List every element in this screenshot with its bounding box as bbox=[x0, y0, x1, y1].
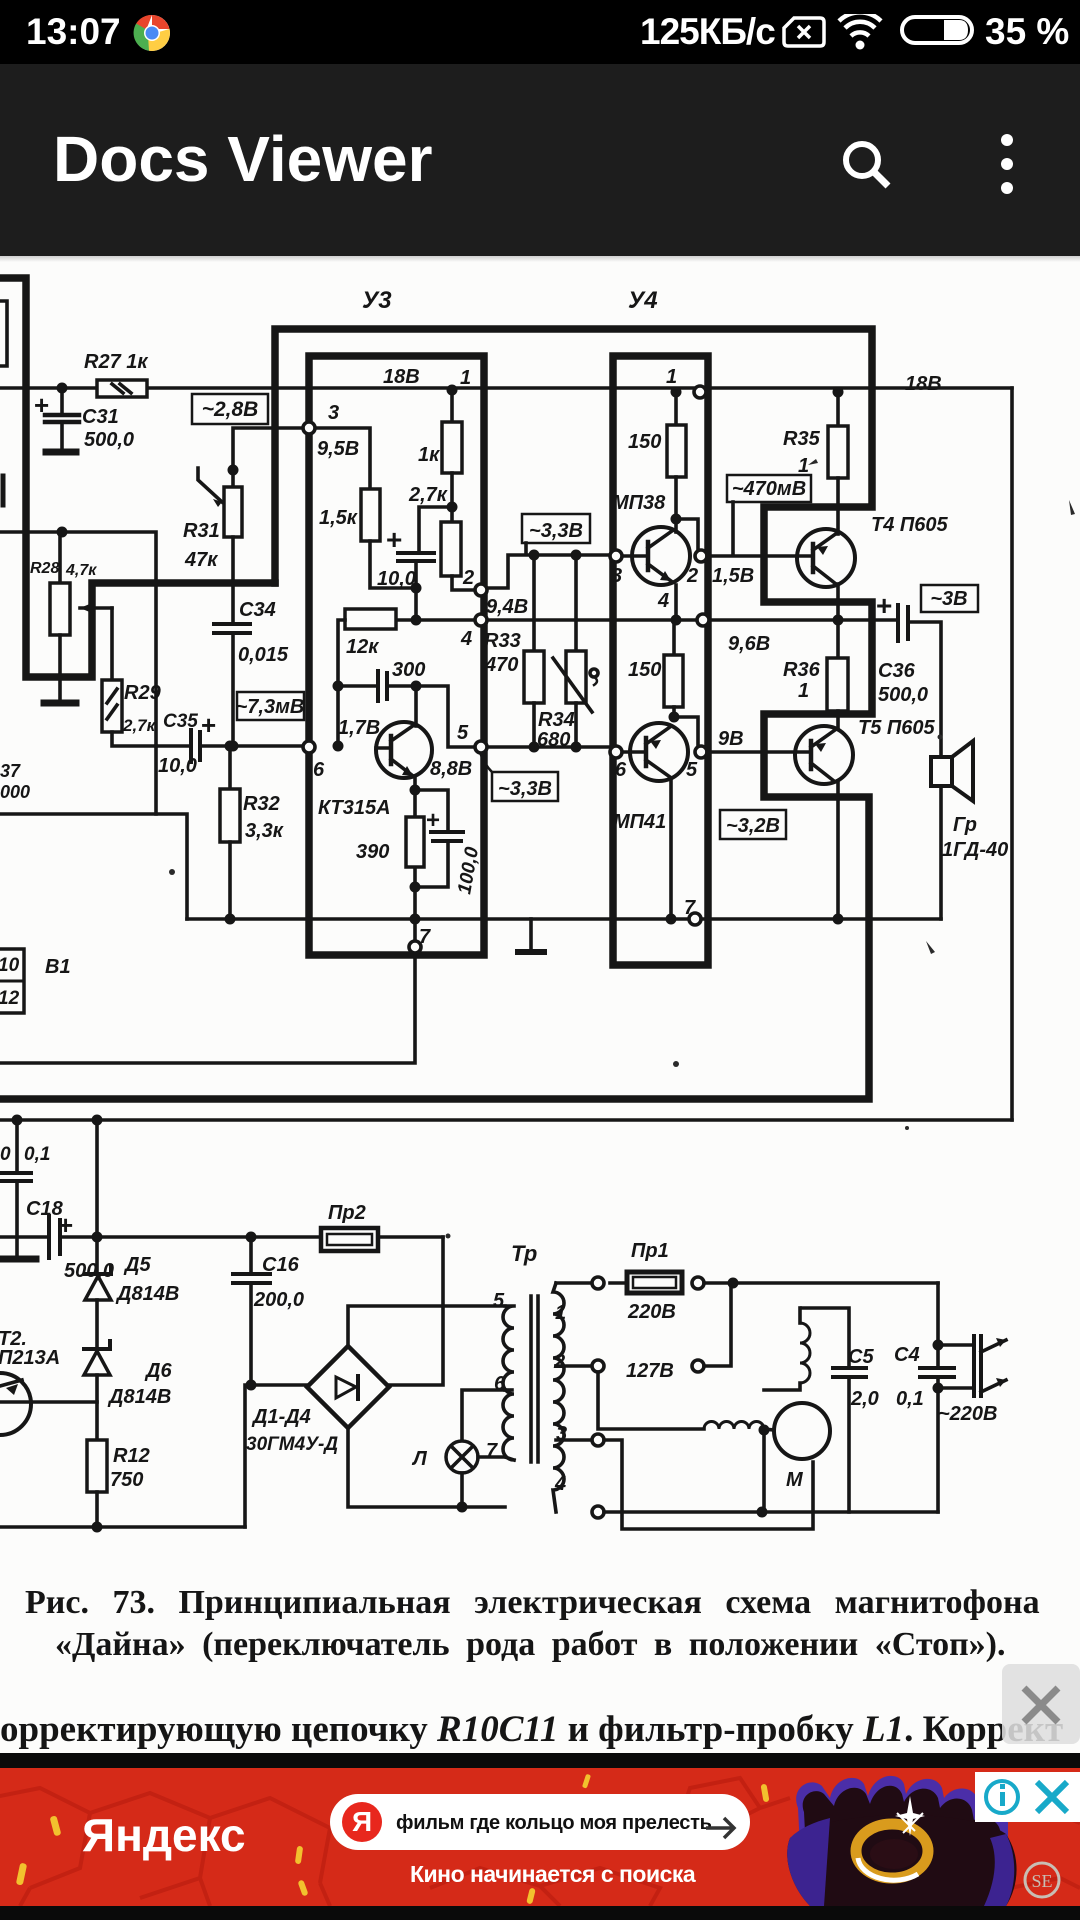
capacitor C5 2,0 bbox=[833, 1368, 866, 1512]
svg-text:200,0: 200,0 bbox=[253, 1289, 304, 1311]
svg-text:R12: R12 bbox=[113, 1445, 150, 1467]
zener D6 bbox=[84, 1341, 110, 1440]
svg-text:+: + bbox=[34, 390, 49, 420]
motor M bbox=[774, 1403, 830, 1459]
junction 338,746 bbox=[333, 741, 344, 752]
svg-text:2,7к: 2,7к bbox=[122, 716, 157, 735]
svg-text:+: + bbox=[876, 590, 892, 621]
svg-text:3,3к: 3,3к bbox=[245, 820, 284, 842]
svg-text:7: 7 bbox=[684, 897, 696, 919]
transformer secondary winding bbox=[503, 1306, 514, 1460]
junction 251,1385 bbox=[246, 1380, 257, 1391]
junction 462,1507 bbox=[457, 1502, 468, 1513]
capacitor C31 bbox=[45, 388, 79, 452]
wire input tap bbox=[0, 532, 156, 814]
svg-text:5: 5 bbox=[686, 759, 698, 781]
svg-text:2,7к: 2,7к bbox=[408, 484, 448, 506]
svg-text:~2,8В: ~2,8В bbox=[202, 398, 259, 421]
junction 62,388 bbox=[57, 383, 68, 394]
wire left stub to switch bbox=[0, 814, 187, 919]
wifi icon bbox=[836, 14, 884, 50]
box U4 bbox=[613, 356, 708, 965]
fuse Pr1 220V bbox=[556, 1272, 938, 1293]
junction 230,919 bbox=[225, 914, 236, 925]
svg-text:~3,3В: ~3,3В bbox=[529, 520, 583, 542]
svg-text:~220В: ~220В bbox=[938, 1403, 998, 1425]
svg-text:С4: С4 bbox=[894, 1344, 920, 1366]
svg-text:Тр: Тр bbox=[511, 1241, 537, 1266]
chrome icon bbox=[133, 14, 171, 52]
junction 938,1388 bbox=[933, 1383, 944, 1394]
svg-text:100,0: 100,0 bbox=[454, 845, 483, 896]
junction 416,686 bbox=[411, 681, 422, 692]
label box ~3,3V upper bbox=[522, 514, 590, 554]
svg-text:С34: С34 bbox=[239, 599, 276, 621]
collector bracket to node2 bbox=[676, 519, 698, 550]
svg-text:Д5: Д5 bbox=[123, 1254, 151, 1276]
caption line 2 bbox=[55, 1626, 1065, 1664]
node 2 (U3) bbox=[475, 584, 487, 596]
svg-text:+: + bbox=[201, 710, 216, 740]
speaker Gr 1GD-40 bbox=[931, 741, 973, 801]
transistor MP41 bbox=[619, 723, 688, 919]
svg-text:Д6: Д6 bbox=[144, 1360, 172, 1382]
svg-text:0,1: 0,1 bbox=[24, 1144, 50, 1165]
svg-text:9,4В: 9,4В bbox=[486, 596, 528, 618]
capacitor C16 200,0 bbox=[233, 1237, 270, 1385]
junction 233,470 bbox=[228, 465, 239, 476]
junction 416,588 bbox=[411, 583, 422, 594]
wire 18V top rail bbox=[0, 386, 1012, 390]
svg-text:750: 750 bbox=[110, 1469, 143, 1491]
resistor R12 750 bbox=[87, 1440, 107, 1527]
svg-text:2,0: 2,0 bbox=[850, 1388, 879, 1410]
wire thick top bus bbox=[0, 329, 872, 1099]
junction 838,392 bbox=[833, 387, 844, 398]
svg-text:500,0: 500,0 bbox=[64, 1260, 114, 1282]
junction 576,747 bbox=[571, 742, 582, 753]
svg-text:7: 7 bbox=[486, 1440, 498, 1462]
transistor MP38 bbox=[619, 527, 690, 620]
svg-text:R29: R29 bbox=[124, 682, 162, 704]
SVG PART2 bbox=[481, 386, 978, 952]
SVG PART3 bbox=[0, 1115, 1006, 1533]
junction 576,555 bbox=[571, 550, 582, 561]
svg-text:300: 300 bbox=[392, 659, 425, 681]
wire bottom left rail bbox=[0, 1525, 245, 1529]
svg-text:2: 2 bbox=[686, 565, 698, 587]
box U3 bbox=[309, 356, 484, 955]
wire bridge left feed bbox=[245, 1385, 307, 1527]
caption line 1 bbox=[25, 1584, 1055, 1622]
transistor T2 P213A bbox=[0, 1373, 97, 1435]
search icon bbox=[836, 134, 896, 194]
junction 415,919 bbox=[410, 914, 421, 925]
label box ~470mV bbox=[727, 475, 811, 554]
svg-text:5: 5 bbox=[457, 722, 469, 744]
svg-text:18В: 18В bbox=[383, 366, 420, 388]
svg-text:R35: R35 bbox=[783, 428, 821, 450]
node 1 (U4) bbox=[694, 386, 706, 398]
wire to node4 bbox=[396, 618, 478, 622]
resistor 150 lower bbox=[664, 620, 683, 717]
junction 233,746 bbox=[228, 741, 239, 752]
node 3 (U3) bbox=[303, 422, 315, 434]
svg-text:500,0: 500,0 bbox=[84, 429, 134, 451]
artwork right bbox=[770, 1768, 1080, 1906]
info/close white box bbox=[975, 1772, 1080, 1822]
junction 838,919 bbox=[833, 914, 844, 925]
junction 415,887 bbox=[410, 882, 421, 893]
junction 838,620 bbox=[833, 615, 844, 626]
SVG PART4: labels bbox=[0, 287, 1008, 1495]
zener D5 bbox=[85, 1237, 111, 1349]
node 7 (U3) bbox=[409, 941, 421, 953]
resistor 150 upper bbox=[667, 392, 686, 532]
svg-text:Т5 П605: Т5 П605 bbox=[858, 717, 936, 739]
transformer primary winding bbox=[553, 1283, 564, 1512]
left edge fragments bbox=[0, 301, 7, 366]
svg-text:5: 5 bbox=[493, 1290, 505, 1312]
potentiometer R28 bbox=[44, 532, 112, 703]
svg-text:0: 0 bbox=[0, 1144, 11, 1165]
junction 416,620 bbox=[411, 615, 422, 626]
svg-text:000: 000 bbox=[0, 782, 30, 802]
SE stamp bbox=[1022, 1860, 1062, 1900]
svg-text:37: 37 bbox=[0, 761, 21, 781]
junction 676,519 bbox=[671, 514, 682, 525]
svg-text:Л: Л bbox=[411, 1448, 428, 1470]
junction 17,1120 bbox=[12, 1115, 23, 1126]
status bar bbox=[0, 0, 1080, 64]
wire MP41 to T5 base bbox=[707, 750, 811, 754]
lamp L bbox=[446, 1390, 505, 1507]
svg-text:150: 150 bbox=[628, 659, 661, 681]
svg-text:3: 3 bbox=[611, 565, 622, 587]
tap 4 bottom bbox=[592, 1506, 938, 1518]
svg-text:1: 1 bbox=[555, 1302, 566, 1324]
transistor T4 P605 bbox=[797, 529, 855, 620]
search pill bbox=[330, 1794, 750, 1850]
wire C36 to speaker bbox=[909, 622, 941, 919]
svg-text:18В: 18В bbox=[905, 373, 942, 395]
resistor 12k bbox=[338, 609, 396, 746]
svg-text:М: М bbox=[786, 1469, 804, 1491]
svg-text:680: 680 bbox=[537, 729, 570, 751]
svg-text:R33: R33 bbox=[484, 630, 521, 652]
resistor R29 bbox=[102, 608, 156, 746]
junction 671,919 bbox=[666, 914, 677, 925]
svg-text:1к: 1к bbox=[418, 444, 440, 466]
wire node3 to R31 bbox=[233, 428, 309, 487]
ground mid bbox=[529, 919, 533, 950]
svg-text:7: 7 bbox=[419, 926, 431, 948]
svg-text:КТ315А: КТ315А bbox=[318, 797, 391, 819]
svg-text:С16: С16 bbox=[262, 1254, 300, 1276]
label box ~2,8V bbox=[192, 394, 268, 424]
junction 452,390 bbox=[447, 385, 458, 396]
close button for ad bbox=[1002, 1664, 1080, 1744]
resistor R33 bbox=[524, 555, 544, 747]
svg-text:0,1: 0,1 bbox=[896, 1388, 924, 1410]
svg-text:10: 10 bbox=[0, 955, 20, 976]
svg-text:~3В: ~3В bbox=[930, 588, 967, 610]
ring bbox=[856, 1824, 928, 1878]
capacitor 300 bbox=[338, 671, 416, 701]
svg-text:R28: R28 bbox=[30, 560, 59, 577]
svg-text:С36: С36 bbox=[878, 660, 916, 682]
junction 938,1345 bbox=[933, 1340, 944, 1351]
wire base bus MP38 bbox=[484, 555, 613, 588]
tap 127V bbox=[556, 1283, 731, 1372]
battery bbox=[900, 15, 974, 45]
capacitor C20 0,1 bbox=[0, 1120, 36, 1259]
capacitor C4 0,1 bbox=[920, 1283, 954, 1512]
wire MP38 to T4 base bbox=[707, 554, 813, 558]
svg-text:9,6В: 9,6В bbox=[728, 633, 770, 655]
wire emitter bottom bus bbox=[187, 917, 941, 921]
svg-text:8,8В: 8,8В bbox=[430, 758, 472, 780]
svg-text:R27 1к: R27 1к bbox=[84, 351, 148, 373]
tap 3 bbox=[556, 1434, 813, 1529]
svg-text:12: 12 bbox=[0, 988, 20, 1009]
wire mid 9.6V rail bbox=[478, 618, 897, 622]
potentiometer R31 bbox=[198, 468, 242, 623]
svg-text:П213А: П213А bbox=[0, 1347, 60, 1369]
svg-text:12к: 12к bbox=[346, 636, 379, 658]
white document area bbox=[0, 256, 1080, 1755]
svg-text:С35: С35 bbox=[163, 711, 198, 732]
svg-text:4,7к: 4,7к bbox=[65, 562, 97, 579]
wire bridge top to winding 5 bbox=[348, 1306, 505, 1346]
resistor 2,7k bbox=[441, 522, 478, 590]
svg-text:Д814В: Д814В bbox=[107, 1386, 171, 1408]
svg-text:1: 1 bbox=[798, 455, 809, 477]
resistor 390 bbox=[406, 817, 424, 867]
junction 764,1430 bbox=[759, 1425, 770, 1436]
svg-text:6: 6 bbox=[313, 759, 325, 781]
motor phase branch bbox=[764, 1308, 849, 1512]
svg-text:47к: 47к bbox=[184, 549, 218, 571]
svg-text:R34: R34 bbox=[538, 709, 575, 731]
svg-text:+: + bbox=[426, 807, 440, 834]
svg-text:4: 4 bbox=[657, 590, 669, 612]
svg-text:0,015: 0,015 bbox=[238, 644, 289, 666]
resistor R32 bbox=[220, 746, 240, 919]
ad banner bbox=[0, 1768, 1080, 1906]
junction 534,747 bbox=[529, 742, 540, 753]
capacitor 10,0 bbox=[398, 507, 452, 620]
junction 415,790 bbox=[410, 785, 421, 796]
secondary taps bbox=[505, 1388, 512, 1392]
node 3 (U4) bbox=[610, 550, 622, 562]
data saver icon bbox=[782, 16, 826, 48]
node 7 (U4) bbox=[689, 913, 701, 925]
palm bbox=[787, 1815, 1016, 1906]
label box ~7,3mV bbox=[237, 692, 304, 720]
node 5 (U4) bbox=[695, 746, 707, 758]
svg-text:1,5В: 1,5В bbox=[712, 565, 754, 587]
wire thick left loop bbox=[0, 278, 275, 677]
overflow menu bbox=[990, 132, 1024, 196]
mains plug ~220V bbox=[938, 1336, 1006, 1396]
svg-text:Т4 П605: Т4 П605 bbox=[871, 514, 949, 536]
wire bottom thin rail bbox=[0, 1118, 1012, 1122]
svg-text:+: + bbox=[386, 524, 402, 555]
svg-text:R32: R32 bbox=[243, 793, 280, 815]
svg-text:~470мВ: ~470мВ bbox=[732, 478, 806, 500]
junction 452,507 bbox=[447, 502, 458, 513]
fingers bbox=[796, 1776, 1008, 1848]
svg-text:127В: 127В bbox=[626, 1360, 674, 1382]
junction 230,746 bbox=[225, 741, 236, 752]
switch B1 bbox=[0, 949, 24, 1013]
node 2 (U4) bbox=[695, 550, 707, 562]
junction 674,717 bbox=[669, 712, 680, 723]
svg-text:~3,2В: ~3,2В bbox=[726, 815, 780, 837]
svg-text:У4: У4 bbox=[628, 287, 658, 314]
svg-text:R31: R31 bbox=[183, 520, 220, 542]
svg-text:Д1-Д4: Д1-Д4 bbox=[251, 1406, 311, 1428]
junction 534,555 bbox=[529, 550, 540, 561]
transistor T5 P605 bbox=[795, 726, 853, 919]
junction 676,620 bbox=[671, 615, 682, 626]
svg-text:У3: У3 bbox=[362, 287, 392, 314]
capacitor C36 bbox=[898, 605, 908, 641]
resistor R27 bbox=[97, 380, 147, 397]
svg-text:Д814В: Д814В bbox=[115, 1283, 179, 1305]
node 5 (U3) bbox=[475, 741, 487, 753]
junction 251,1237 bbox=[246, 1232, 257, 1243]
capacitor C35 bbox=[156, 730, 309, 762]
wire collector to node5 bbox=[416, 686, 478, 747]
sparkle bbox=[895, 1796, 925, 1836]
wire rectifier feed bbox=[95, 1120, 99, 1237]
svg-text:30ГМ4У-Д: 30ГМ4У-Д bbox=[246, 1434, 338, 1455]
capacitor C18 500,0 bbox=[0, 1216, 321, 1258]
node 4 (U4) bbox=[697, 614, 709, 626]
svg-text:9В: 9В bbox=[718, 728, 744, 750]
label box ~3V bbox=[921, 585, 978, 612]
svg-text:6: 6 bbox=[494, 1373, 506, 1395]
capacitor C34 bbox=[214, 624, 250, 746]
svg-text:4: 4 bbox=[460, 628, 472, 650]
svg-text:1,7В: 1,7В bbox=[338, 717, 380, 739]
label box ~3,3V lower bbox=[481, 755, 558, 801]
caption line 3 bbox=[0, 1708, 1080, 1751]
thermistor R34 bbox=[553, 555, 598, 747]
svg-text:Пр2: Пр2 bbox=[328, 1202, 366, 1224]
fuse Pr2 bbox=[321, 1228, 443, 1385]
diode bridge D1-D4 bbox=[307, 1346, 389, 1428]
svg-text:10,0: 10,0 bbox=[377, 568, 416, 590]
svg-text:+: + bbox=[58, 1210, 73, 1240]
svg-text:С5: С5 bbox=[848, 1346, 874, 1368]
svg-text:220В: 220В bbox=[627, 1301, 676, 1323]
junction 97,1120 bbox=[92, 1115, 103, 1126]
junction 762,1512 bbox=[757, 1507, 768, 1518]
svg-text:1: 1 bbox=[798, 680, 809, 702]
svg-text:Пр1: Пр1 bbox=[631, 1240, 669, 1262]
svg-text:МП41: МП41 bbox=[613, 811, 666, 833]
node 6 (U4) bbox=[610, 746, 622, 758]
wire bridge bottom rail bbox=[348, 1428, 505, 1507]
svg-text:~7,3мВ: ~7,3мВ bbox=[236, 696, 305, 718]
node 6 (U3) bbox=[303, 741, 315, 753]
svg-text:SЕ: SЕ bbox=[1031, 1871, 1052, 1891]
svg-text:С31: С31 bbox=[82, 406, 119, 428]
svg-text:1,5к: 1,5к bbox=[319, 507, 358, 529]
svg-text:500,0: 500,0 bbox=[878, 684, 928, 706]
svg-text:4: 4 bbox=[554, 1473, 566, 1495]
svg-text:9,5В: 9,5В bbox=[317, 438, 359, 460]
svg-text:МП38: МП38 bbox=[612, 492, 666, 514]
resistor R35 bbox=[828, 392, 848, 534]
svg-text:В1: В1 bbox=[45, 956, 71, 978]
wire node5 bus bbox=[478, 745, 613, 749]
junction 338,686 bbox=[333, 681, 344, 692]
svg-text:10,0: 10,0 bbox=[158, 755, 197, 777]
junction 97,1527 bbox=[92, 1522, 103, 1533]
node 4 (U3) bbox=[475, 614, 487, 626]
svg-text:1ГД-40: 1ГД-40 bbox=[942, 839, 1008, 861]
wire node7 rail bbox=[0, 867, 415, 1063]
resistor 1,5k bbox=[309, 428, 416, 588]
junction 62,532 bbox=[57, 527, 68, 538]
tap 2 to motor coil bbox=[556, 1366, 774, 1430]
svg-text:6: 6 bbox=[615, 759, 627, 781]
svg-text:2: 2 bbox=[553, 1351, 565, 1373]
junction 676,392 bbox=[671, 387, 682, 398]
svg-text:~3,3В: ~3,3В bbox=[498, 778, 552, 800]
svg-text:2: 2 bbox=[462, 567, 474, 589]
junction 97,1237 bbox=[92, 1232, 103, 1243]
resistor 1k bbox=[442, 390, 462, 522]
svg-text:390: 390 bbox=[356, 841, 389, 863]
junction 733,1283 bbox=[728, 1278, 739, 1289]
transistor KT315A bbox=[376, 686, 432, 817]
resistor R36 bbox=[827, 620, 848, 728]
svg-text:3: 3 bbox=[556, 1423, 567, 1445]
svg-text:Гр: Гр bbox=[953, 814, 977, 836]
svg-text:470: 470 bbox=[484, 654, 518, 676]
label box ~3,2V bbox=[720, 810, 786, 839]
transformer Tr core bbox=[531, 1296, 538, 1462]
svg-text:1: 1 bbox=[460, 367, 471, 389]
svg-text:150: 150 bbox=[628, 431, 661, 453]
capacitor 100,0 bbox=[415, 790, 463, 887]
app bar bbox=[0, 64, 1080, 256]
svg-text:1: 1 bbox=[666, 366, 677, 388]
svg-text:3: 3 bbox=[328, 402, 339, 424]
wire right border bbox=[1010, 388, 1014, 1120]
svg-text:R36: R36 bbox=[783, 659, 821, 681]
